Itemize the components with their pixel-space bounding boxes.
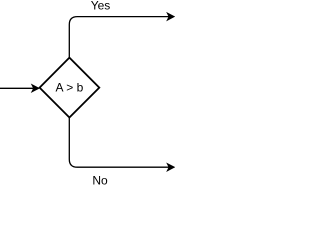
- decision diamond: A > b: [40, 58, 100, 118]
- svg-text:A > b: A > b: [56, 81, 84, 95]
- svg-text:Yes: Yes: [91, 0, 111, 13]
- wire: Yes branch (up from top vertex, rounded corner, right): [69, 13, 174, 58]
- wire: No branch (down from bottom vertex, rounded corner, right): [69, 118, 174, 171]
- svg-text:No: No: [92, 174, 108, 186]
- wire: incoming arrow into left vertex: [0, 85, 39, 92]
